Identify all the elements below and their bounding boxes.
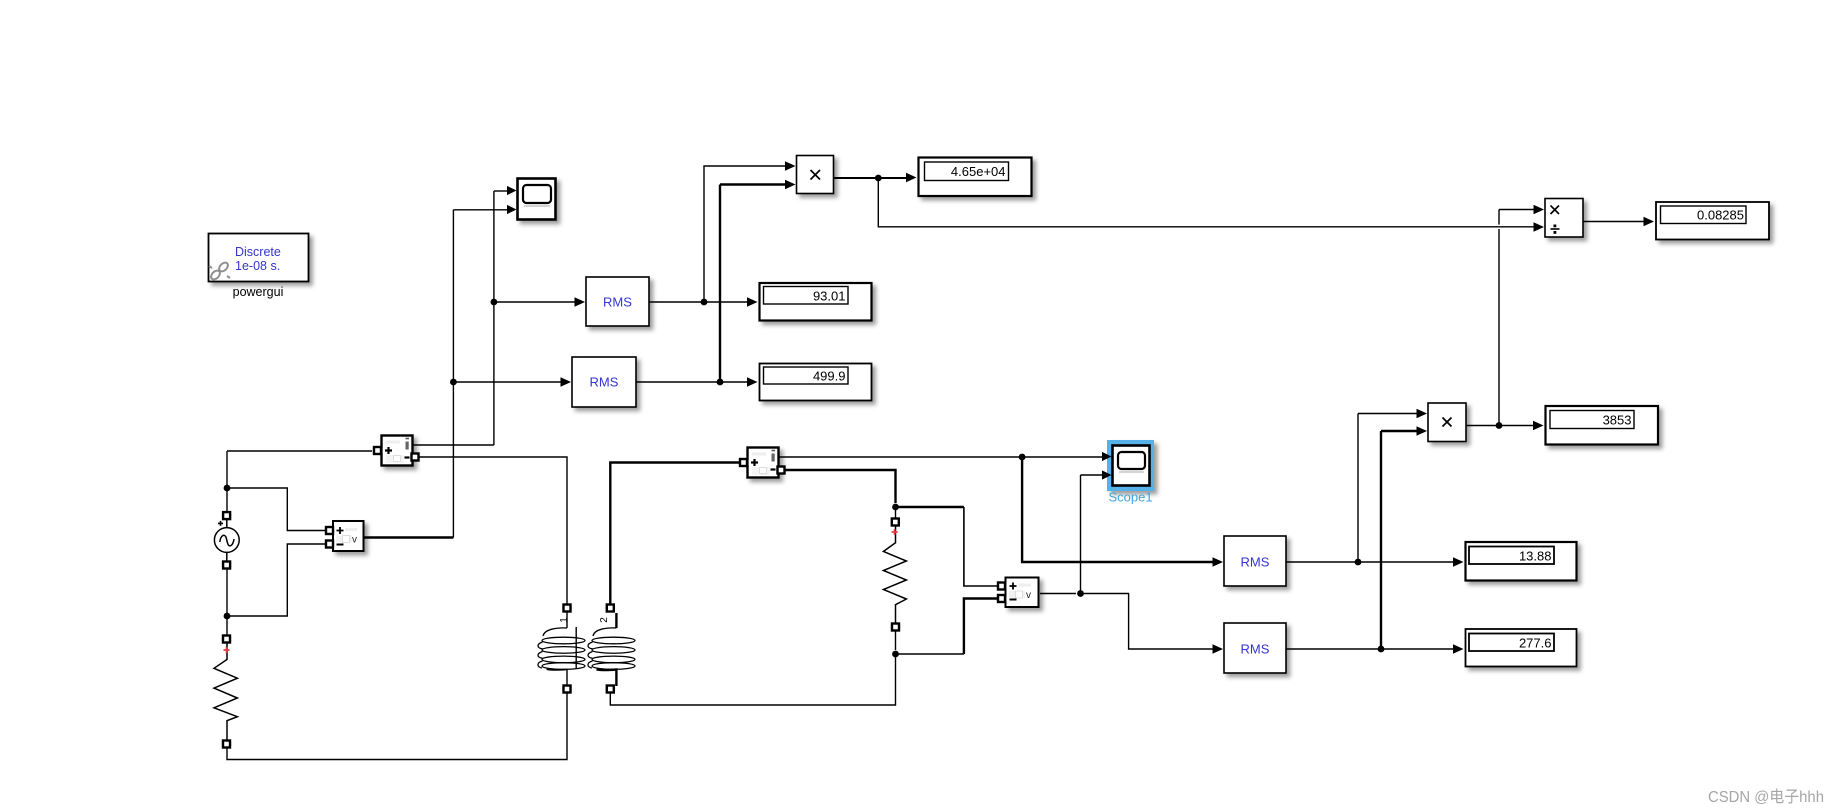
junction node B (source - tap) xyxy=(224,613,231,620)
R1 top port xyxy=(222,636,232,643)
wire into divide in1 xyxy=(1499,209,1534,211)
wire i1 signal vertical xyxy=(493,191,495,445)
RMS4 block xyxy=(1224,623,1286,673)
wire RMS1 output to display 93.01 xyxy=(649,301,749,303)
powergui block xyxy=(209,234,309,282)
AC source + port xyxy=(222,512,232,519)
display block 277.6 xyxy=(1466,629,1577,667)
v1 + terminal port xyxy=(325,527,335,534)
svg-text:277.6: 277.6 xyxy=(1519,636,1552,651)
RMS3 block xyxy=(1224,536,1286,586)
svg-text:Discrete: Discrete xyxy=(235,245,281,259)
svg-text:2: 2 xyxy=(599,617,610,623)
display 0.08285 input arrow xyxy=(1644,217,1655,227)
scope input arrow 2 xyxy=(507,205,517,214)
svg-text:v: v xyxy=(352,535,357,546)
v1 - terminal port xyxy=(325,541,335,548)
junction v2 signal xyxy=(1077,590,1084,597)
wire v2 output xyxy=(1040,593,1076,595)
wire power tap to divide in2 xyxy=(878,178,1534,227)
display 3853 input arrow xyxy=(1533,421,1544,431)
display block 3853 xyxy=(1546,406,1659,445)
svg-text:1: 1 xyxy=(559,617,570,623)
resistor R1 zigzag xyxy=(214,642,237,741)
v2 + terminal port xyxy=(997,583,1007,590)
transformer winding1 top port xyxy=(562,605,572,612)
wire R2 bottom port to node D xyxy=(895,630,897,650)
wire into scope input 1 xyxy=(494,190,508,192)
junction node D (R2 bottom) xyxy=(892,651,899,658)
AC voltage source V1 xyxy=(226,518,228,562)
wire v2 - branch xyxy=(964,599,998,655)
display block 0.08285 xyxy=(1656,202,1769,240)
wire v1 signal vertical (hops over i1 wires) xyxy=(452,210,454,538)
wire source- to R1 top xyxy=(226,568,228,636)
junction v1 signal to RMS2 xyxy=(450,379,457,386)
RMS2 input arrow xyxy=(561,377,572,387)
transformer winding 1 coil xyxy=(538,611,585,686)
wire RMS4 tap vertical (hop over 13.88 line) xyxy=(1380,431,1382,649)
R2 top port xyxy=(890,519,900,526)
junction RMS3 output xyxy=(1355,559,1362,566)
svg-text:v: v xyxy=(1026,590,1031,601)
svg-text:RMS: RMS xyxy=(1241,555,1270,570)
wire i2 - to node C xyxy=(785,470,896,503)
display 277.6 input arrow xyxy=(1453,644,1464,654)
Product2 input arrow 2 xyxy=(1417,426,1428,436)
Scope1 input arrow 2 xyxy=(1102,470,1112,479)
wire junction to RMS2 input xyxy=(453,381,562,383)
scope block xyxy=(518,179,556,220)
svg-text:RMS: RMS xyxy=(590,375,619,390)
wire i1 signal out xyxy=(413,444,494,446)
wire RMS2 tap to Product1 in2 xyxy=(720,183,786,185)
i2 - terminal port xyxy=(776,467,786,474)
divide block (x over division) xyxy=(1545,199,1583,238)
RMS4 input arrow xyxy=(1213,644,1224,654)
wire v2 signal vertical (hop over RMS3 line) xyxy=(1080,475,1082,594)
svg-text:1e-08 s.: 1e-08 s. xyxy=(235,259,280,273)
wire v2 - to node D xyxy=(897,653,964,655)
current measurement block i2 xyxy=(748,448,779,478)
wire i1 - to winding1 top xyxy=(419,457,568,605)
junction Product2 output xyxy=(1496,422,1503,429)
display block 13.88 xyxy=(1466,542,1577,581)
transformer winding2 top port xyxy=(605,605,615,612)
product block Product1 (x) xyxy=(797,156,834,194)
display block 93.01 xyxy=(760,283,872,321)
svg-text:93.01: 93.01 xyxy=(813,289,846,304)
i1 - terminal port xyxy=(410,454,420,461)
R2 bottom port xyxy=(891,624,901,631)
junction RMS4 output xyxy=(1378,646,1385,653)
wire v1 - to node B xyxy=(230,544,325,616)
wire node C to R2 top port xyxy=(895,510,897,519)
wire Product2 output tap vertical xyxy=(1498,210,1500,426)
transformer winding2 bottom port xyxy=(605,686,615,693)
wire node D to winding2 bottom xyxy=(610,654,895,705)
display block 4.65e+04 xyxy=(919,158,1032,197)
v2 - terminal port xyxy=(997,595,1007,602)
junction Product1 output xyxy=(875,175,882,182)
svg-text:4.65e+04: 4.65e+04 xyxy=(951,164,1006,179)
wire Product2 output to display 3853 xyxy=(1466,425,1534,427)
i2 + terminal port xyxy=(739,459,749,466)
divide input arrow 1 xyxy=(1534,205,1545,215)
Scope1 block xyxy=(1113,446,1150,486)
R1 bottom port xyxy=(222,741,232,748)
Product1 input arrow 1 xyxy=(785,161,796,171)
wire node A to v1 + xyxy=(227,488,325,531)
wire Product1 output to display 4.65e+04 xyxy=(834,177,908,179)
wire i2 signal to Scope1 in1 xyxy=(779,456,1102,458)
wire v1 output xyxy=(365,536,454,538)
Product1 input arrow 2 xyxy=(785,180,796,190)
resistor R2 zigzag xyxy=(883,525,906,624)
Product2 input arrow 1 xyxy=(1417,409,1428,419)
wire left branch top vertical xyxy=(226,451,228,512)
voltage measurement block v1 xyxy=(333,521,364,551)
display block 499.9 xyxy=(760,364,872,401)
transformer core bar xyxy=(575,627,577,669)
svg-text:3853: 3853 xyxy=(1603,413,1632,428)
wire R1 bottom to bottom rail to winding1 bottom xyxy=(227,693,567,760)
wire RMS4 output to display 277.6 xyxy=(1286,648,1453,650)
wire RMS1 tap to Product1 in1 xyxy=(704,166,786,302)
junction i2 signal xyxy=(1019,454,1026,461)
RMS1 block xyxy=(586,277,649,326)
display 4.65e+04 input arrow xyxy=(906,173,917,183)
svg-text:13.88: 13.88 xyxy=(1519,549,1552,564)
wire node C to v2 + xyxy=(964,507,998,586)
svg-text:Scope1: Scope1 xyxy=(1108,490,1152,505)
wire source-top to i1+ xyxy=(227,450,372,452)
wire RMS3 tap to Product2 in1 xyxy=(1358,413,1417,415)
wire v2 signal to RMS4 input xyxy=(1081,594,1214,650)
svg-text:RMS: RMS xyxy=(1241,642,1270,657)
junction i1 signal to RMS1 xyxy=(491,299,498,306)
svg-text:0.08285: 0.08285 xyxy=(1697,208,1744,223)
RMS1 input arrow xyxy=(575,297,586,307)
voltage measurement block v2 xyxy=(1006,578,1039,608)
junction RMS2 output xyxy=(717,379,724,386)
wire winding2 top to i2 + xyxy=(610,463,740,606)
scope input arrow 1 xyxy=(507,186,517,195)
display 13.88 input arrow xyxy=(1453,557,1464,567)
junction node C (R2 top) xyxy=(892,504,899,511)
wire node C branch xyxy=(896,506,964,508)
wire RMS2 tap vertical (hop over RMS1 line) xyxy=(719,185,721,383)
wire junction to RMS1 input xyxy=(494,301,576,303)
svg-text:499.9: 499.9 xyxy=(813,369,846,384)
transformer winding1 bottom port xyxy=(562,686,572,693)
svg-text:RMS: RMS xyxy=(603,295,632,310)
R1 red + polarity mark xyxy=(224,647,230,653)
RMS2 block xyxy=(572,357,636,407)
current measurement block i1 xyxy=(382,436,413,466)
transformer winding 2 coil xyxy=(588,613,635,686)
powergui broken-chain icon xyxy=(209,261,230,281)
R2 red + polarity mark xyxy=(892,529,898,535)
i1 + terminal port xyxy=(373,447,383,454)
product block Product2 (x) xyxy=(1428,403,1466,442)
display 93.01 input arrow xyxy=(747,297,758,307)
AC source - port xyxy=(222,562,232,569)
Scope1 selection highlight xyxy=(1107,440,1154,491)
divide input arrow 2 xyxy=(1534,222,1545,232)
wire into scope input 2 xyxy=(453,209,508,211)
display 499.9 input arrow xyxy=(747,377,758,387)
wire RMS3 tap vertical xyxy=(1357,414,1359,563)
junction RMS1 output xyxy=(701,299,708,306)
svg-text:CSDN @电子hhh: CSDN @电子hhh xyxy=(1708,788,1824,806)
RMS3 input arrow xyxy=(1213,557,1224,567)
Scope1 input arrow 1 xyxy=(1102,452,1112,461)
svg-text:powergui: powergui xyxy=(233,285,284,299)
wire v2 signal to Scope1 in2 xyxy=(1081,474,1103,476)
wire RMS3 output to display 13.88 xyxy=(1286,561,1453,563)
wire divide output to display 0.08285 xyxy=(1583,221,1645,223)
junction node A (source + tap) xyxy=(224,485,231,492)
wire RMS4 tap to Product2 in2 xyxy=(1381,430,1417,432)
wire i2 signal to RMS3 input xyxy=(1022,457,1213,562)
wire RMS2 output to display 499.9 xyxy=(636,381,749,383)
